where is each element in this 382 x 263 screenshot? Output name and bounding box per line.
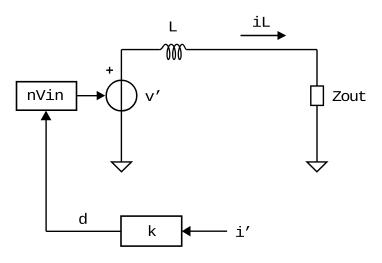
voltage source v' circle U1 [106, 80, 137, 111]
wire left vertical [120, 50, 122, 162]
label L [170, 22, 177, 32]
impedance Zout rect [311, 86, 324, 105]
arrowhead i' into k [182, 226, 191, 237]
iL current arrow wire [241, 35, 279, 37]
wire nVin to source [77, 95, 99, 97]
wire feedback vertical [45, 120, 47, 232]
arrowhead nVin to source [97, 91, 106, 100]
label i' [236, 226, 249, 237]
arrowhead up into nVin [41, 111, 52, 121]
label d [79, 213, 86, 224]
label k [149, 225, 156, 236]
block nVin [17, 82, 77, 111]
label v' [145, 90, 160, 101]
wire top horizontal right segment [187, 49, 317, 51]
wire top horizontal left segment [121, 49, 159, 51]
ground left [112, 162, 132, 172]
iL current arrowhead [278, 31, 287, 40]
label nVin [28, 89, 63, 100]
wire i' [190, 230, 227, 232]
label iL [253, 16, 270, 27]
wire d horizontal [46, 230, 121, 232]
label Zout [333, 91, 366, 101]
plus polarity sign [106, 67, 113, 74]
ground right [307, 162, 327, 172]
wire right vertical lower [316, 105, 318, 161]
block k [121, 216, 182, 246]
inductor L [160, 44, 187, 59]
wire right vertical upper [316, 50, 318, 86]
